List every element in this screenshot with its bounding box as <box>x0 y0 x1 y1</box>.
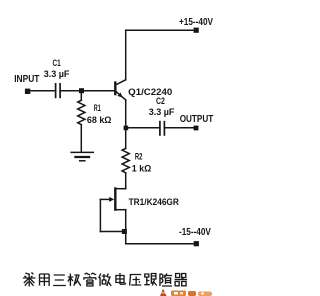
svg-text:TR1/K246GR: TR1/K246GR <box>129 197 180 207</box>
svg-text:INPUT: INPUT <box>14 74 39 85</box>
svg-text:-15--40V: -15--40V <box>179 227 211 238</box>
svg-text:OUTPUT: OUTPUT <box>180 114 214 125</box>
svg-text:C1: C1 <box>53 58 61 68</box>
svg-text:3.3 µF: 3.3 µF <box>44 69 70 79</box>
svg-text:R1: R1 <box>94 103 101 113</box>
svg-text:R2: R2 <box>135 151 143 161</box>
svg-text:+15--40V: +15--40V <box>179 17 213 28</box>
svg-text:1 kΩ: 1 kΩ <box>132 163 152 173</box>
svg-text:68 kΩ: 68 kΩ <box>87 115 112 125</box>
svg-text:3.3 µF: 3.3 µF <box>149 107 175 117</box>
svg-text:Q1/C2240: Q1/C2240 <box>128 87 172 97</box>
svg-text:C2: C2 <box>156 96 165 106</box>
